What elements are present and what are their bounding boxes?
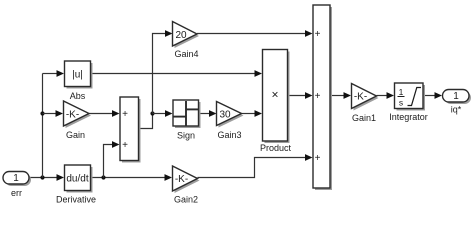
svg-text:Gain1: Gain1 — [352, 113, 376, 123]
svg-text:Gain: Gain — [66, 130, 85, 140]
wire big Sum to Gain1 — [330, 92, 351, 99]
svg-text:Abs: Abs — [70, 91, 86, 101]
block Derivative — [56, 165, 96, 205]
wire Abs to Product upper input — [91, 70, 263, 77]
wire Gain3 to Product lower input — [242, 110, 263, 117]
svg-text:20: 20 — [175, 30, 187, 41]
wire Sign to Gain3 — [199, 110, 217, 117]
junction at Gain branch — [40, 111, 44, 115]
svg-text:|u|: |u| — [72, 70, 83, 81]
svg-text:1: 1 — [13, 173, 19, 184]
gain Gain — [64, 101, 92, 140]
junction on err line at branch — [40, 175, 44, 179]
svg-text:Product: Product — [260, 143, 292, 153]
svg-text:Gain2: Gain2 — [174, 195, 198, 205]
wire to Sign input — [153, 110, 173, 117]
wire vertical branch from err line up — [42, 74, 44, 178]
inport 1 err — [3, 172, 31, 199]
svg-text:-K-: -K- — [66, 109, 79, 120]
svg-text:du/dt: du/dt — [66, 174, 88, 185]
wire Gain2 elbow to big Sum third input — [198, 154, 313, 177]
outport 1 iq* — [443, 90, 472, 115]
svg-text:+: + — [122, 109, 128, 120]
svg-text:Sign: Sign — [177, 131, 195, 141]
svg-text:+: + — [122, 140, 128, 151]
svg-text:Integrator: Integrator — [389, 112, 428, 122]
svg-text:1: 1 — [453, 91, 459, 102]
svg-text:+: + — [315, 91, 321, 102]
svg-text:Gain3: Gain3 — [217, 130, 241, 140]
wire up to Gain4 input — [153, 30, 173, 113]
wire Integrator to outport — [423, 92, 442, 99]
gain Gain3 — [217, 102, 244, 141]
wire Sum1 output elbow up — [139, 114, 153, 129]
wire Gain to Sum1 first input — [89, 110, 120, 117]
wire Gain4 to big Sum first input — [197, 30, 313, 37]
svg-text:s: s — [399, 98, 403, 108]
block Integrator — [389, 83, 428, 122]
gain Gain4 — [173, 22, 200, 60]
block Product — [260, 50, 292, 154]
junction at Sign/Gain4 branch — [150, 111, 154, 115]
wire Derivative to Gain2 — [91, 174, 173, 181]
gain Gain2 — [173, 166, 200, 205]
sum Sum (tall) — [313, 5, 332, 190]
svg-text:Derivative: Derivative — [56, 195, 96, 205]
svg-text:+: + — [315, 29, 321, 40]
wire branch to Abs — [43, 70, 65, 77]
svg-text:Gain4: Gain4 — [174, 49, 198, 59]
wire branch from Derivative output to Sum1 second input — [104, 141, 120, 177]
svg-text:×: × — [271, 88, 278, 102]
svg-text:-K-: -K- — [354, 91, 367, 102]
wire branch to Gain — [43, 110, 64, 117]
svg-text:-K-: -K- — [175, 174, 188, 185]
wire err main line to Derivative — [29, 174, 64, 181]
wire Product to big Sum second input — [288, 92, 313, 99]
wire Gain1 to Integrator — [377, 92, 395, 99]
svg-text:iq*: iq* — [451, 105, 462, 115]
svg-text:1: 1 — [399, 87, 404, 97]
gain Gain1 — [352, 84, 379, 124]
svg-text:err: err — [11, 188, 22, 198]
block Sign — [173, 100, 201, 141]
svg-text:+: + — [315, 153, 321, 164]
junction on Derivative output — [101, 175, 105, 179]
sum Sum1 — [120, 97, 141, 163]
block Abs — [65, 61, 93, 101]
svg-text:30: 30 — [219, 109, 231, 120]
